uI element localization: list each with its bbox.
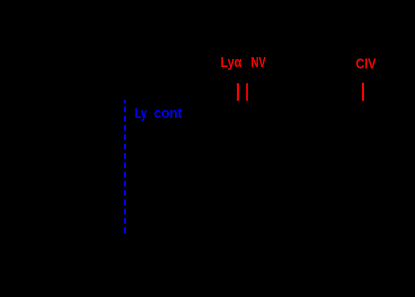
svg-text:Ly: Ly [135, 106, 148, 122]
svg-text:cont: cont [154, 106, 182, 122]
tick mark: Lya line position [237, 83, 239, 101]
svg-text:CIV: CIV [356, 57, 376, 73]
svg-text:NV: NV [251, 55, 266, 71]
tick mark: CIV line position [362, 83, 364, 101]
wire: blue dashed vertical line (Lyman continuum limit) [124, 100, 126, 234]
svg-text:Lyα: Lyα [221, 55, 242, 71]
tick mark: NV line position [246, 83, 248, 101]
